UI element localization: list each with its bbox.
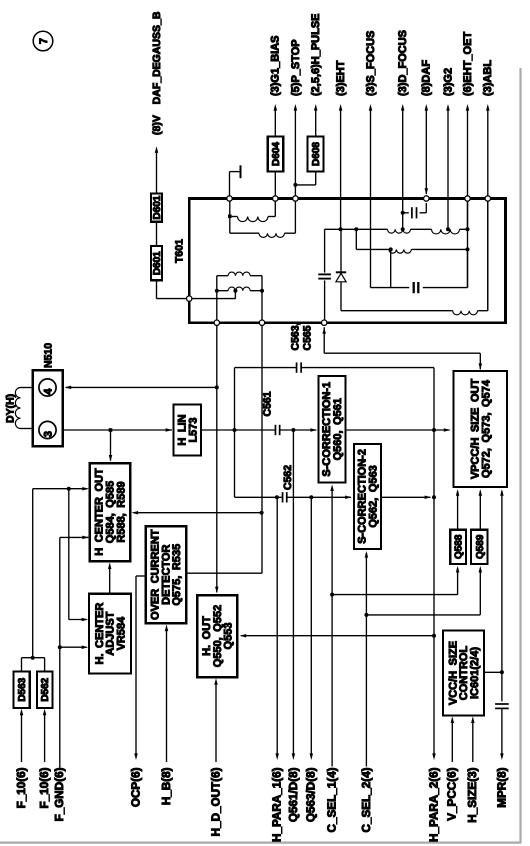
svg-text:7: 7	[38, 38, 50, 44]
svg-text:C562: C562	[282, 465, 294, 490]
svg-text:Q575, R535: Q575, R535	[171, 544, 183, 606]
svg-text:C_SEL_1(4): C_SEL_1(4)	[326, 767, 339, 832]
svg-text:Q553: Q553	[223, 623, 235, 650]
svg-text:Q572, Q573, Q574: Q572, Q573, Q574	[480, 379, 492, 478]
svg-text:VR584: VR584	[115, 616, 127, 651]
svg-text:(3)D_FOCUS: (3)D_FOCUS	[397, 30, 409, 96]
svg-text:H_PARA_2(6): H_PARA_2(6)	[427, 767, 440, 842]
svg-text:F_GND(6): F_GND(6)	[53, 767, 66, 821]
svg-text:H_SIZE(3): H_SIZE(3)	[466, 767, 479, 822]
svg-text:F_10(6): F_10(6)	[15, 767, 28, 808]
svg-text:L573: L573	[187, 417, 199, 442]
svg-text:Q562, Q563: Q562, Q563	[367, 465, 379, 527]
svg-text:(3)EHT: (3)EHT	[335, 60, 347, 96]
svg-text:OCP(6): OCP(6)	[129, 767, 142, 807]
svg-text:D562: D562	[40, 677, 51, 701]
svg-text:H_PARA_1(6): H_PARA_1(6)	[271, 767, 284, 842]
svg-text:(3)G2: (3)G2	[442, 68, 454, 96]
svg-text:Q588: Q588	[454, 534, 465, 559]
svg-text:C561: C561	[261, 391, 273, 416]
svg-text:Q560, Q561: Q560, Q561	[332, 398, 344, 460]
svg-text:IC601(2/4): IC601(2/4)	[469, 647, 481, 699]
svg-text:D563: D563	[17, 677, 28, 701]
svg-text:(3)S_FOCUS: (3)S_FOCUS	[365, 31, 377, 96]
svg-text:C_SEL_2(4): C_SEL_2(4)	[360, 767, 373, 832]
svg-text:Q561/D(8): Q561/D(8)	[287, 767, 300, 822]
svg-text:DY(H): DY(H)	[5, 394, 17, 423]
svg-text:(2,5,6)H_PULSE: (2,5,6)H_PULSE	[310, 13, 322, 96]
svg-text:3: 3	[42, 431, 54, 437]
svg-text:F_10(6): F_10(6)	[38, 767, 51, 808]
svg-text:(8)DAF: (8)DAF	[421, 60, 433, 96]
svg-text:(6)EHT_OET: (6)EHT_OET	[462, 32, 474, 96]
svg-text:D601: D601	[152, 195, 163, 219]
svg-text:(3)G1_BIAS: (3)G1_BIAS	[270, 35, 282, 96]
svg-text:Q589: Q589	[475, 534, 486, 559]
svg-text:D608: D608	[311, 142, 322, 166]
svg-text:C563,: C563,	[289, 322, 301, 350]
svg-text:(5)P_STOP: (5)P_STOP	[290, 39, 302, 96]
svg-text:(3)ABL: (3)ABL	[482, 60, 494, 96]
svg-text:V_PCC(6): V_PCC(6)	[446, 767, 459, 820]
svg-text:H_D_OUT(6): H_D_OUT(6)	[209, 767, 222, 836]
svg-text:Q563/D(8): Q563/D(8)	[305, 767, 318, 822]
svg-text:D601: D601	[152, 251, 163, 275]
svg-text:(8)V DAF_DEGAUSS_B: (8)V DAF_DEGAUSS_B	[151, 11, 163, 135]
svg-text:R588, R589: R588, R589	[115, 481, 127, 542]
svg-text:N510: N510	[43, 343, 55, 368]
svg-text:MPR(8): MPR(8)	[495, 767, 508, 807]
svg-text:T601: T601	[174, 239, 186, 263]
svg-text:4: 4	[42, 388, 54, 395]
svg-text:H_B(8): H_B(8)	[160, 767, 173, 805]
svg-text:C565: C565	[301, 325, 313, 350]
svg-text:D604: D604	[271, 142, 282, 166]
